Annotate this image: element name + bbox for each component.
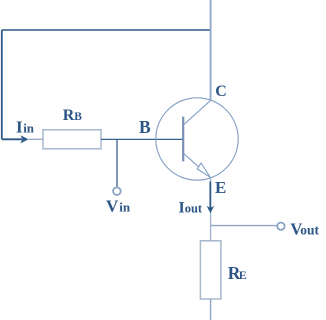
svg-text:R: R [63,107,75,124]
svg-text:out: out [300,223,319,238]
svg-text:in: in [119,199,131,214]
svg-text:V: V [106,196,119,215]
svg-text:E: E [239,268,247,282]
svg-text:E: E [215,178,226,197]
svg-text:B: B [74,111,82,123]
svg-text:C: C [215,83,227,100]
svg-text:in: in [23,121,35,136]
svg-text:out: out [185,202,203,216]
svg-text:I: I [16,117,23,136]
svg-text:B: B [139,117,151,137]
